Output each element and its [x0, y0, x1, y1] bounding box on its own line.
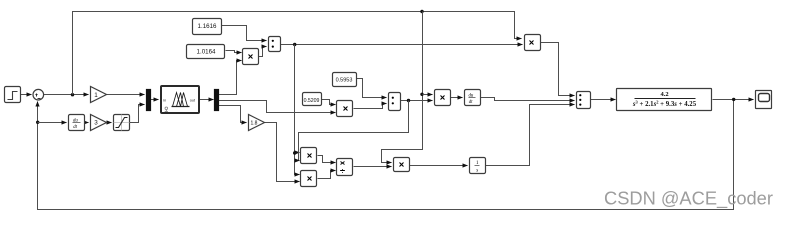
constant 1.0164 — [187, 45, 225, 59]
integrator 1/s block — [470, 158, 486, 174]
wire gain1 to mux — [107, 94, 145, 96]
svg-text:1.1616: 1.1616 — [198, 23, 217, 30]
wire gain3 to saturation — [107, 122, 112, 124]
sum Kd block — [389, 93, 401, 111]
node e-junction — [71, 93, 74, 96]
wire sum3 to transfer fcn — [591, 99, 616, 101]
node Kd junction — [407, 99, 410, 102]
wire demux out3 to gain 1.8 — [219, 106, 247, 123]
sum block (round, +-) — [33, 89, 44, 100]
wire product B to divide in2 — [318, 171, 336, 179]
svg-text:4.2: 4.2 — [660, 91, 668, 98]
constant 1.1616 — [193, 19, 222, 35]
wire du/dt to gain3 — [85, 122, 89, 124]
node Kp lower junction — [293, 151, 296, 154]
wire Kp down to product B in1 — [295, 45, 300, 175]
demux block — [215, 90, 219, 111]
svg-text:0.5953: 0.5953 — [336, 78, 353, 84]
node e mid junction — [420, 93, 423, 96]
wire Kp to product A in1 — [295, 152, 300, 154]
wire constant 0.5953 to sum Kd in1 — [357, 79, 387, 98]
product A (x) — [301, 148, 317, 164]
wire product Kd to sum Kd in2 — [354, 104, 387, 109]
wire feedback to derivative du/dt — [38, 122, 67, 124]
fuzzy logic controller block — [161, 86, 199, 113]
wire Kp long to product P in2 — [281, 44, 523, 46]
svg-text:3: 3 — [94, 120, 98, 127]
wire e to product D in1 — [423, 94, 433, 96]
wire step to sum — [21, 94, 32, 96]
constant 0.5953 — [333, 73, 357, 87]
wire gain1.8 down to product B in2 — [265, 123, 300, 182]
wire constant 0.5209 to product Kd in1 — [321, 100, 336, 105]
sum3 block — [577, 92, 591, 109]
saturation block — [114, 115, 130, 131]
derivative du/dt block — [69, 115, 85, 131]
scope block — [756, 91, 772, 109]
product Kd (x) — [337, 101, 353, 117]
wire product A to divide in1 — [318, 156, 336, 163]
wire saturation to mux in2 — [130, 105, 145, 123]
wire fuzzy to demux — [200, 99, 214, 101]
wire integrator up to sum3 in3 — [485, 105, 575, 166]
wire product D to derivative2 — [451, 97, 463, 99]
wire mux to fuzzy — [151, 99, 159, 101]
svg-text:s: s — [476, 169, 478, 174]
svg-text:CSDN @ACE_coder: CSDN @ACE_coder — [604, 188, 773, 210]
wire constant 1.1616 to sum Kp in1 — [222, 26, 267, 41]
gain 1 triangle — [91, 87, 107, 103]
node feedback junction to derivative — [36, 121, 39, 124]
wire divide to product I in2 — [354, 166, 392, 168]
wire derivative2 to sum3 in2 — [481, 98, 575, 101]
wire feedback from output junction to sum — [38, 100, 734, 210]
derivative2 du/dt block — [465, 90, 481, 106]
svg-text:s3 + 2.1s2 + 9.3s + 4.25: s3 + 2.1s2 + 9.3s + 4.25 — [632, 100, 697, 109]
wire sum to gain1 (error e) — [44, 94, 89, 96]
product Kp (x) — [243, 49, 259, 65]
node output junction — [732, 98, 735, 101]
wire demux out1 up to product Kp — [219, 61, 242, 95]
gain 1.8 triangle — [249, 115, 265, 131]
product P (x) — [525, 35, 541, 51]
wire Kd down-left to product A in2 — [299, 101, 409, 161]
mux block — [147, 90, 151, 111]
svg-text:1.0164: 1.0164 — [197, 48, 216, 55]
sum Kp block — [269, 37, 281, 52]
divide block — [337, 159, 353, 176]
svg-text:out: out — [190, 98, 196, 102]
node top-wire junction — [420, 10, 423, 13]
node Kp junction — [293, 43, 296, 46]
svg-text:1.8: 1.8 — [251, 121, 258, 127]
product D (x) — [435, 90, 451, 106]
step source block — [5, 87, 21, 103]
wire constant 1.0164 to product Kp in1 — [226, 51, 242, 53]
wire e up and along top to product P — [73, 12, 522, 95]
svg-text:0.5209: 0.5209 — [304, 98, 320, 104]
svg-text:1: 1 — [94, 92, 98, 99]
wire transfer fcn to scope — [713, 99, 754, 101]
wire demux out2 to product Kd — [219, 101, 336, 113]
transfer fcn block — [617, 89, 712, 111]
wire product I to integrator — [409, 165, 468, 167]
wire e down to product I in1 — [382, 12, 423, 163]
wire sum Kd to product D in2 — [401, 100, 433, 102]
constant 0.5209 — [303, 93, 322, 106]
product I (x) — [394, 158, 410, 172]
product B (x) — [301, 171, 317, 187]
gain 3 triangle — [91, 115, 107, 131]
wire product Kp to sum Kp in2 — [259, 47, 267, 57]
svg-text:in: in — [163, 98, 166, 102]
wire product P down to sum3 in1 — [540, 43, 575, 96]
